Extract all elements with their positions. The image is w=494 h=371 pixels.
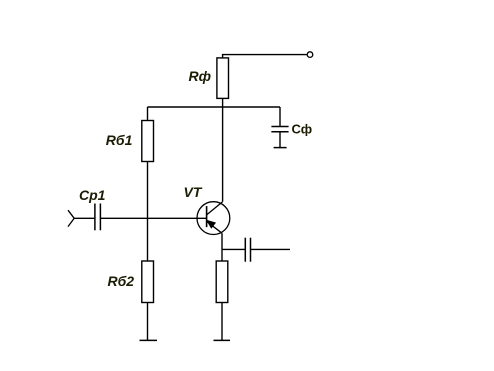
resistor Rф	[217, 58, 229, 99]
wire: Cф stem from rail	[279, 107, 281, 126]
wire: R62 top stem from base node	[147, 218, 149, 261]
transistor base bar	[206, 206, 208, 227]
transistor VT body circle	[197, 202, 230, 235]
wire: Cф bottom stem	[279, 132, 281, 148]
wire: emitter bypass branch right open stub	[251, 248, 290, 250]
ground under Rб2	[140, 339, 158, 341]
wire: base wire from Cp1 to transistor base	[101, 217, 207, 219]
ground under Cф	[274, 147, 287, 149]
wire: emitter bypass branch left	[222, 248, 245, 250]
capacitor (emitter bypass)	[245, 238, 250, 262]
transistor emitter diagonal	[207, 221, 222, 233]
transistor emitter arrow (PNP, pointing to base)	[207, 221, 215, 228]
svg-text:Сф: Сф	[292, 121, 313, 136]
wire: R61 top stem	[147, 107, 149, 121]
resistor Rб1	[142, 121, 154, 162]
wire: emitter resistor bottom stem	[221, 303, 223, 341]
svg-text:Rф: Rф	[189, 68, 212, 84]
transistor collector diagonal	[207, 202, 223, 215]
svg-text:Rб2: Rб2	[108, 273, 135, 289]
resistor Rб2	[142, 261, 154, 303]
capacitor Cp1	[95, 204, 101, 231]
wire: R61 bottom stem to base node	[147, 162, 149, 219]
wire: output stub from top of Rф to output terminal	[223, 55, 307, 59]
capacitor Cф	[271, 127, 288, 132]
wire: input to Cp1	[74, 217, 94, 219]
svg-text:VT: VT	[184, 184, 203, 200]
emitter resistor	[216, 261, 228, 303]
input terminal chevron	[68, 210, 74, 226]
svg-text:Ср1: Ср1	[79, 187, 106, 203]
wire: collector vertical from Rф bottom to transistor	[222, 98, 224, 201]
wire: top supply rail	[148, 106, 281, 108]
wire: R62 bottom stem	[147, 303, 149, 341]
output terminal (open circle)	[307, 52, 313, 58]
svg-text:Rб1: Rб1	[106, 132, 133, 148]
wire: emitter vertical	[221, 233, 223, 261]
ground under emitter resistor	[214, 339, 231, 341]
